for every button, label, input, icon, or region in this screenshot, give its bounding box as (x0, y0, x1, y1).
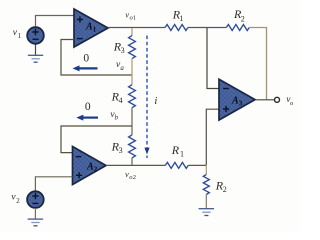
svg-text:2: 2 (241, 14, 245, 23)
wire v1 to ground (35, 44, 37, 55)
wire A3 output to terminal (255, 99, 275, 101)
wire v1 to A1 + input (36, 16, 75, 28)
ground under R2 (199, 209, 214, 216)
resistor R2 (top) (226, 25, 249, 31)
wire R1 to junction (188, 164, 206, 166)
svg-text:1: 1 (180, 150, 184, 159)
svg-text:R: R (171, 143, 180, 157)
svg-text:i: i (154, 96, 157, 107)
resistor R1 (bottom) (165, 162, 188, 168)
svg-text:3: 3 (239, 99, 243, 107)
resistor R4 (131, 75, 133, 85)
svg-text:1: 1 (18, 32, 22, 40)
resistor R1 (top) (165, 25, 188, 31)
wire R1 to R2 with junction (188, 27, 226, 29)
source v1 (27, 27, 44, 44)
A1 feedback wire to node va (61, 40, 132, 76)
svg-text:A: A (85, 22, 93, 33)
svg-text:0: 0 (85, 101, 91, 113)
svg-text:1: 1 (133, 14, 136, 21)
op-amp A2 (73, 147, 107, 185)
resistor R3 (upper) (129, 36, 136, 59)
wire bottom junction up to A3 + input (206, 109, 219, 165)
svg-text:0: 0 (83, 53, 89, 65)
wire A2 output to R1 (bottom) (106, 164, 165, 166)
op-amp A3 (219, 79, 255, 120)
svg-text:4: 4 (119, 96, 123, 105)
wire v2 to A2 + input (35, 177, 72, 191)
svg-text:2: 2 (133, 174, 136, 181)
source v2 (27, 191, 44, 208)
svg-text:3: 3 (119, 146, 123, 155)
resistor R3 (lower) (131, 126, 133, 135)
svg-text:1: 1 (179, 14, 183, 23)
ground under v2 (28, 219, 43, 226)
svg-text:b: b (115, 114, 119, 122)
wire vo1 node down to R3 (131, 28, 133, 36)
wire R2 to ground (205, 195, 207, 209)
svg-text:A: A (231, 95, 239, 106)
svg-text:a: a (120, 64, 124, 72)
wire R2 right corner down to output node (249, 28, 266, 100)
ground under v1 (28, 55, 43, 62)
resistor R2 (bottom, vertical) (205, 165, 207, 174)
wire R3 to node vo2 (131, 158, 133, 165)
current arrow 0 (bottom) (82, 116, 98, 118)
wire top junction down to A3 minus input (207, 28, 219, 89)
op-amp A1 (74, 9, 108, 47)
wire R3 to node va (131, 59, 133, 75)
wire A1 output to R1 (108, 27, 165, 29)
svg-text:2: 2 (16, 197, 20, 205)
svg-text:A: A (86, 162, 94, 173)
svg-text:2: 2 (223, 185, 227, 194)
wire v2 to ground (34, 208, 36, 219)
dashed current line i (146, 36, 148, 151)
output terminal (275, 97, 280, 102)
svg-text:1: 1 (93, 26, 97, 34)
wire R4 to node vb (131, 108, 133, 126)
current arrow 0 (top) (78, 67, 98, 69)
svg-text:3: 3 (121, 46, 125, 55)
wire vb to A2 minus input (61, 126, 132, 153)
svg-text:2: 2 (94, 166, 98, 174)
